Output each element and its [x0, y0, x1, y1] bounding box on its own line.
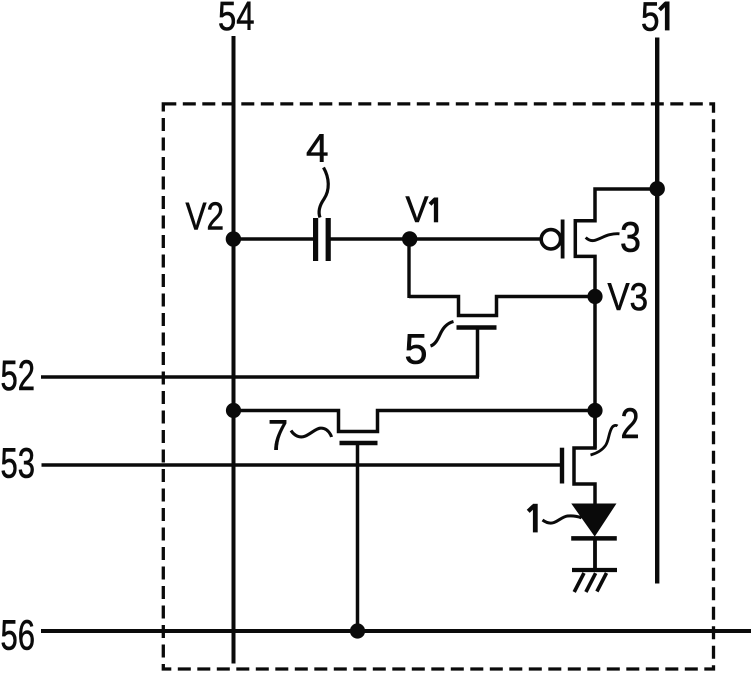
svg-text:V: V — [406, 188, 429, 230]
wire: control line 52 — [41, 375, 479, 378]
ground symbol — [572, 570, 617, 592]
svg-text:56: 56 — [1, 612, 36, 660]
svg-text:4: 4 — [306, 127, 329, 171]
svg-text:3: 3 — [620, 214, 641, 262]
svg-text:54: 54 — [218, 0, 255, 39]
label V1 — [406, 188, 437, 230]
wire capacitor 4 to V1 — [328, 237, 410, 240]
node on line 56 (gate lead of Q7) — [350, 623, 365, 638]
leader squiggle for 3 — [586, 234, 620, 241]
svg-text:52: 52 — [1, 352, 36, 400]
leader squiggle for 2 — [591, 425, 618, 455]
wire: power line 51 (vertical bus) — [655, 38, 659, 584]
node V2 (junction on line 54) — [226, 231, 241, 246]
leader squiggle for 5 — [431, 322, 454, 347]
svg-text:7: 7 — [268, 412, 288, 460]
svg-text:53: 53 — [1, 439, 36, 487]
wire V1 to gate of transistor 3 — [410, 237, 540, 240]
leader squiggle for 4 — [319, 168, 328, 218]
svg-text:5: 5 — [405, 326, 428, 374]
capacitor C4 — [316, 218, 329, 261]
transistor Q2 (n-type, drive transistor) — [562, 411, 595, 507]
svg-text:V3: V3 — [608, 276, 649, 319]
svg-text:V2: V2 — [186, 196, 225, 239]
wire V3 down to transistor 2 — [593, 297, 597, 449]
wire: signal line 54 (vertical bus) — [232, 36, 236, 664]
pixel cell boundary (dashed box) — [163, 104, 713, 669]
node on line 54 (junction at transistor 7) — [226, 403, 241, 418]
leader squiggle for 1 — [543, 516, 582, 523]
node junction (V3 column at row line) — [587, 403, 602, 418]
node on line 51 (drain of Q3) — [650, 181, 665, 196]
wire: control line 53 (gate of Q2) — [42, 463, 561, 466]
svg-text:2: 2 — [621, 400, 640, 448]
LED D1 (light emitting element) — [571, 504, 617, 570]
node V1 (junction) — [402, 231, 417, 246]
wire V1 down to transistor 5 — [407, 239, 410, 298]
transistor Q5 (n-type, channel notch) — [409, 297, 595, 378]
transistor Q3 (p-type, gate bubble) — [541, 189, 657, 297]
label 51 — [641, 0, 667, 40]
wire: power supply line 56 — [41, 629, 751, 633]
svg-text:5: 5 — [641, 0, 660, 40]
wire V2 to capacitor 4 — [234, 237, 315, 240]
transistor Q7 (n-type, channel notch) — [234, 411, 596, 632]
node V3 (junction) — [587, 289, 602, 304]
leader squiggle for 7 — [291, 428, 332, 437]
label 1 — [528, 504, 535, 533]
